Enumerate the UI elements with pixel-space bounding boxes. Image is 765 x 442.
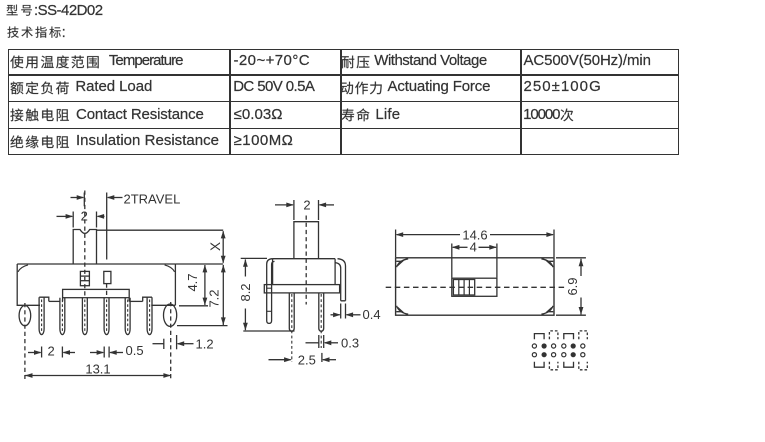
pad layout: open pad r1c1 xyxy=(532,344,536,348)
dimension 0.4 tab xyxy=(340,304,342,319)
dimension 2 side actuator xyxy=(293,200,295,220)
pad layout: solid bracket top xyxy=(564,334,574,340)
top view: slider window xyxy=(452,278,497,296)
pad layout: open pad r1c6 xyxy=(581,344,585,348)
pad layout: dashed outline bottom xyxy=(579,362,588,370)
front view: pin 6 top shoulder xyxy=(143,297,152,301)
front view: contact block 1 xyxy=(80,271,89,285)
top view: horizontal centerline dashed xyxy=(386,286,565,288)
svg-text:2.5: 2.5 xyxy=(298,352,316,367)
svg-text:4: 4 xyxy=(470,239,477,254)
side view: body top xyxy=(273,258,336,260)
pad layout: solid bracket bottom xyxy=(534,362,544,368)
pad layout: open pad r2c6 xyxy=(581,353,585,357)
svg-text:13.1: 13.1 xyxy=(85,361,110,376)
top view: corner relief 2 xyxy=(541,259,553,267)
pad layout: open pad r2c3 xyxy=(552,353,556,357)
svg-text:2: 2 xyxy=(303,197,310,212)
side view: actuator centerline dashed xyxy=(305,216,307,305)
svg-text:4.7: 4.7 xyxy=(185,273,200,291)
pad layout: solid bracket top xyxy=(534,334,544,340)
front view: pin 5 xyxy=(125,298,130,335)
top view: body outline xyxy=(396,258,554,315)
front view: switch body outline xyxy=(17,264,175,305)
front view: pin 3 xyxy=(82,298,87,335)
front view: pin 2 xyxy=(60,298,65,335)
svg-text:6.9: 6.9 xyxy=(565,277,580,295)
side view: actuator xyxy=(294,222,319,259)
svg-text:2: 2 xyxy=(48,343,55,358)
front view: pin 1 top shoulder xyxy=(39,297,49,301)
dimension 4.7 xyxy=(179,305,208,307)
dimension 1.2 foot xyxy=(163,339,165,349)
front view: pin 4 xyxy=(104,298,109,335)
table row 3 xyxy=(10,108,73,122)
dimension X xyxy=(97,229,223,231)
table row 4 xyxy=(10,135,73,149)
dimension 13.1 overall xyxy=(25,375,171,377)
pad layout: open pad r2c1 xyxy=(532,353,536,357)
side view: body sides xyxy=(272,259,274,285)
front view: actuator knob with V-notch xyxy=(73,230,96,265)
front view: top-right corner notch xyxy=(165,265,175,272)
header: model number xyxy=(6,4,37,16)
front view: bottom step lines xyxy=(49,300,60,302)
svg-text:0.5: 0.5 xyxy=(126,343,144,358)
top view: corner relief 1 xyxy=(397,259,409,267)
pad layout: filled pad r1c2 xyxy=(542,343,547,348)
front view: right mounting foot xyxy=(164,304,177,326)
dimension 14.6 xyxy=(395,230,397,258)
header: technical specs label xyxy=(7,26,65,38)
pad layout: open pad r2c4 xyxy=(562,353,566,357)
top view: corner relief 3 xyxy=(397,306,409,314)
pad layout: dashed outline top xyxy=(549,331,558,339)
front view: left mounting foot xyxy=(19,306,31,326)
dimension 2TRAVEL xyxy=(83,193,85,207)
side view: right hook tab xyxy=(335,259,345,301)
side view: left hook tab xyxy=(267,259,275,324)
svg-text:2TRAVEL: 2TRAVEL xyxy=(124,191,181,206)
front view: actuator centerline dashed xyxy=(84,191,86,299)
pad layout: dashed outline top xyxy=(579,331,588,339)
pad layout: filled pad r2c2 xyxy=(542,352,547,357)
front view: top-left corner notch xyxy=(18,265,28,272)
dimension 8.2 xyxy=(241,257,267,259)
pad layout: open pad r1c4 xyxy=(562,344,566,348)
spec table grid xyxy=(8,49,679,155)
side view: pin 2 xyxy=(319,293,324,331)
front view: centerline of block2 dashed xyxy=(106,284,108,296)
top view: corner relief 4 xyxy=(541,306,553,314)
table row 2 xyxy=(10,81,73,95)
pad layout: filled pad r2c5 xyxy=(571,352,576,357)
side view: pin 1 xyxy=(289,293,294,331)
pad layout: filled pad r1c5 xyxy=(571,343,576,348)
pad layout: dashed outline bottom xyxy=(549,362,558,370)
dimension 2 actuator width xyxy=(72,212,74,228)
svg-text:0.4: 0.4 xyxy=(363,307,381,322)
front view: contact block 2 xyxy=(104,271,111,283)
dimension 2 pin pitch xyxy=(41,347,43,358)
side view: base band xyxy=(264,285,339,293)
pad layout: open pad r1c3 xyxy=(552,344,556,348)
table row 1 xyxy=(10,55,103,69)
dimension 0.5 pin width xyxy=(103,347,105,358)
svg-text:2: 2 xyxy=(81,208,88,223)
front view: pin 6 xyxy=(147,297,152,334)
front view: base strip xyxy=(63,289,130,297)
svg-text:0.3: 0.3 xyxy=(341,336,359,351)
dimension 0.3 pin xyxy=(318,335,320,348)
svg-text:1.2: 1.2 xyxy=(196,336,214,351)
dimension 2.5 pin spacing xyxy=(321,353,323,362)
top view: slider knob with ridges xyxy=(453,280,474,296)
front view: pin 1 xyxy=(39,297,44,334)
svg-text:7.2: 7.2 xyxy=(207,289,222,307)
pad layout: solid bracket bottom xyxy=(564,362,574,368)
dimension 6.9 xyxy=(556,257,586,259)
svg-text:X: X xyxy=(208,242,223,251)
svg-text:8.2: 8.2 xyxy=(238,283,253,301)
dimension 4 xyxy=(451,244,453,278)
dimension 7.2 xyxy=(177,325,228,327)
